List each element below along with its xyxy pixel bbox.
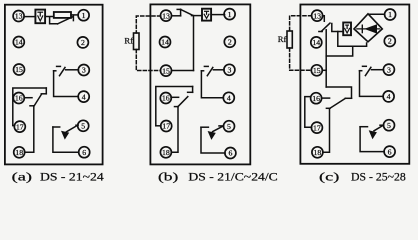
terminal 15 (b) (161, 65, 172, 76)
terminal 1 (c) (385, 9, 396, 20)
delayed contact arrowhead (b) (208, 131, 216, 140)
terminal 14 (a) (13, 37, 24, 48)
terminal 16 (b) (160, 93, 171, 104)
svg-text:16: 16 (15, 94, 23, 103)
terminal 6 (b) (225, 148, 236, 159)
coil bottom loop (c) (338, 32, 367, 47)
delayed contact arrowhead (c) (369, 130, 377, 139)
dashed lead Rf to 13 (c) (290, 16, 312, 31)
svg-text:DS - 25~28: DS - 25~28 (351, 172, 406, 184)
wire R to 1 (a) (71, 14, 78, 16)
terminal 5 (a) (78, 120, 89, 131)
terminal 1 (b) (224, 9, 235, 20)
svg-text:13: 13 (313, 11, 321, 20)
delayed contact leg and wire to 6 (c) (360, 127, 384, 152)
shorting contact blade (a) (58, 17, 74, 24)
slip contact jog (b) (188, 91, 193, 93)
wire terminal 5 (c) (380, 124, 384, 126)
wire terminal 16 (c) (322, 97, 330, 99)
contact 3-4 moving blade (b) (207, 67, 213, 75)
terminal 16 (c) (311, 93, 322, 104)
svg-text:2: 2 (228, 38, 232, 47)
loop over 16 to 17 (a) (13, 88, 47, 126)
terminal 14 (c) (311, 37, 322, 48)
terminal 5 (b) (224, 121, 235, 132)
wire 15 to riser (c) (322, 69, 326, 71)
contact 3-4 leg and wire to 4 (b) (201, 71, 223, 98)
svg-text:5: 5 (387, 121, 391, 130)
svg-text:14: 14 (161, 38, 169, 47)
svg-text:6: 6 (82, 148, 86, 157)
contact feed lower run (c) (326, 87, 351, 98)
wire 13 to contact (b) (172, 15, 181, 17)
contact 3-4 seat stub (c) (360, 70, 362, 72)
damping resistor R (a) (54, 12, 71, 18)
svg-text:17: 17 (16, 122, 24, 131)
slip contact tick (b) (175, 106, 179, 108)
caption (c) (319, 172, 406, 184)
terminal 3 (b) (224, 64, 235, 75)
wire coil to resistor R (a) (45, 16, 54, 18)
delayed contact fixed stub (c) (360, 126, 367, 128)
dashed lead Rf to 15 (c) (290, 48, 312, 70)
terminal 17 (b) (161, 121, 172, 132)
relay case (c) (300, 5, 409, 164)
svg-text:15: 15 (313, 66, 321, 75)
svg-text:18: 18 (15, 148, 23, 157)
contact feed riser (c) (325, 30, 327, 87)
svg-text:16: 16 (162, 94, 170, 103)
wire coil to 1 (b) (211, 14, 225, 16)
shorting branch right leg (a) (72, 15, 74, 20)
dashed lead Rf to 13 (b) (136, 16, 160, 33)
terminal 4 (c) (383, 91, 394, 102)
terminal 13 (a) (13, 11, 24, 22)
terminal 13 (b) (161, 10, 172, 21)
delayed contact leg and wire to 6 (a) (53, 127, 79, 152)
delayed contact blade (b) (213, 126, 224, 132)
wire terminal 5 (b) (219, 125, 223, 127)
contact 3-4 seat stub (b) (201, 70, 203, 72)
terminal 15 (c) (311, 65, 322, 76)
slip contact fixed post (b) (192, 87, 194, 93)
loop 16 to 17 (c) (305, 97, 312, 128)
wire terminal 16 (a) (24, 97, 32, 99)
slip contact tick (b) (177, 8, 180, 10)
caption (b) (158, 172, 278, 184)
svg-text:17: 17 (313, 123, 321, 132)
caption (a) (12, 172, 104, 184)
wire bridge to 1 (c) (369, 13, 385, 15)
terminal 14 (b) (160, 37, 171, 48)
electromagnet coil (a) (35, 10, 45, 24)
svg-text:6: 6 (388, 147, 392, 156)
contact 3-4 seat tick (c) (363, 65, 367, 67)
wire 13 to coil (a) (24, 16, 35, 18)
wire 18 riser (c) (323, 108, 329, 152)
contact 3-4 seat stub (a) (54, 70, 56, 72)
terminal 18 (b) (160, 147, 171, 158)
bus drop link (c) (326, 46, 353, 56)
svg-text:(c): (c) (319, 172, 340, 184)
delayed contact leg and wire to 6 (b) (201, 127, 225, 153)
svg-text:16: 16 (312, 94, 320, 103)
svg-text:DS - 21/C~24/C: DS - 21/C~24/C (188, 172, 277, 184)
slip contact jog (a) (41, 93, 46, 95)
terminal 3 (a) (78, 65, 89, 76)
delayed contact blade (c) (374, 125, 384, 131)
slip contact tick 16 (c) (326, 107, 330, 109)
svg-text:2: 2 (388, 37, 392, 46)
svg-text:18: 18 (314, 148, 322, 157)
rectifier bridge (c) (354, 14, 382, 42)
svg-text:5: 5 (81, 122, 85, 131)
wire terminal 17 (b) (156, 125, 161, 127)
riser node to 15 (b) (193, 16, 195, 71)
contact 3-4 seat tick (a) (57, 65, 61, 67)
contact 3-4 moving blade (c) (365, 67, 371, 75)
dashed lead Rf to 15 (b) (136, 50, 160, 71)
terminal 5 (c) (384, 120, 395, 131)
wire contact to coil (b) (192, 15, 203, 17)
wire terminal 3 (b) (213, 69, 224, 71)
svg-text:15: 15 (162, 66, 170, 75)
slip contact blade (b) (181, 9, 194, 15)
svg-text:4: 4 (82, 92, 86, 101)
relay case (b) (150, 4, 250, 164)
svg-text:14: 14 (15, 38, 23, 47)
terminal 17 (a) (14, 121, 25, 132)
shorting branch left leg (a) (50, 17, 58, 24)
svg-text:4: 4 (227, 94, 231, 103)
svg-text:14: 14 (312, 38, 320, 47)
svg-text:13: 13 (15, 12, 23, 21)
svg-text:2: 2 (81, 38, 85, 47)
svg-text:5: 5 (227, 122, 231, 131)
slip contact fixed post (a) (45, 88, 47, 94)
slip contact blade (c) (321, 23, 330, 31)
electromagnet coil (b) (202, 9, 211, 21)
svg-text:3: 3 (227, 66, 231, 75)
terminal 18 (a) (14, 147, 25, 158)
svg-text:Rf: Rf (124, 35, 133, 45)
terminal 1 (a) (78, 10, 89, 21)
contact 3-4 leg and wire to 4 (c) (360, 71, 384, 97)
terminal 2 (b) (224, 36, 235, 47)
svg-text:DS - 21~24: DS - 21~24 (40, 172, 104, 184)
svg-text:3: 3 (387, 65, 391, 74)
wire terminal 5 (a) (76, 124, 78, 126)
slip contact tick (a) (30, 105, 34, 107)
contact 3-4 seat tick (b) (204, 65, 208, 67)
delayed contact arrowhead (a) (61, 131, 69, 140)
terminal 18 (c) (312, 147, 323, 158)
svg-text:1: 1 (82, 11, 86, 20)
svg-text:18: 18 (162, 148, 170, 157)
svg-text:13: 13 (162, 11, 170, 20)
bridge diode triangle (c) (364, 24, 377, 33)
svg-text:1: 1 (228, 10, 232, 19)
svg-text:(a): (a) (12, 172, 33, 184)
wire contact to coil (c) (332, 24, 343, 32)
svg-text:15: 15 (15, 65, 23, 74)
terminal 2 (c) (384, 36, 395, 47)
external resistor Rf (c) (278, 31, 292, 48)
wire terminal 17 (a) (13, 125, 15, 127)
terminal 2 (a) (77, 37, 88, 48)
relay case (a) (5, 5, 103, 165)
contact 3-4 leg and wire to 4 (a) (54, 71, 79, 97)
delayed contact fixed stub (b) (201, 126, 208, 128)
svg-text:6: 6 (228, 149, 232, 158)
terminal 6 (a) (79, 147, 90, 158)
slip contact blade (a) (34, 94, 41, 105)
terminal 17 (c) (311, 122, 322, 133)
svg-text:17: 17 (162, 122, 170, 131)
svg-text:3: 3 (82, 66, 86, 75)
external resistor Rf (b) (124, 33, 139, 50)
slip contact blade (b) (178, 97, 188, 107)
wire 13 to contact (c) (323, 16, 325, 22)
delayed contact fixed stub (a) (53, 126, 60, 128)
wire terminal 16 (b) (171, 96, 179, 98)
terminal 16 (a) (13, 93, 24, 104)
svg-text:(b): (b) (158, 172, 179, 184)
slip contact blade 16 (c) (330, 98, 345, 108)
svg-text:Rf: Rf (278, 34, 287, 44)
wire 15 to riser (b) (172, 70, 194, 72)
terminal 4 (a) (78, 91, 89, 102)
terminal 6 (c) (384, 146, 395, 157)
slip contact tick (c) (319, 31, 322, 33)
terminal 13 (c) (312, 10, 323, 21)
terminal 15 (a) (14, 64, 25, 75)
slip contact jog (c) (345, 97, 351, 99)
terminal 4 (b) (223, 92, 234, 103)
slip contact post (b) (180, 9, 182, 15)
terminal 3 (c) (383, 64, 394, 75)
wire terminal 3 (a) (66, 69, 79, 71)
wire 18 riser (a) (25, 106, 34, 152)
contact 3-4 moving blade (a) (60, 67, 66, 75)
svg-text:1: 1 (388, 10, 392, 19)
wire 18 riser (b) (172, 107, 179, 153)
delayed contact blade (a) (66, 125, 78, 132)
loop over 16 to 17 (b) (156, 87, 193, 126)
wire terminal 3 (c) (372, 69, 384, 71)
svg-text:4: 4 (387, 92, 391, 101)
electromagnet coil (c) (343, 23, 351, 36)
